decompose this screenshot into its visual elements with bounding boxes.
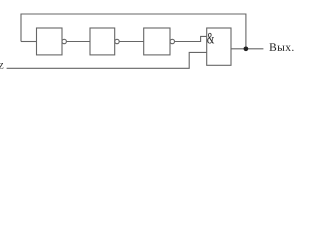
inversion bubble of DD3	[170, 39, 174, 43]
wire feedback top	[21, 14, 246, 49]
wire Z input line	[7, 52, 207, 68]
wire inverter3 to AND upper input	[175, 36, 207, 41]
and-gate U4 box	[207, 28, 231, 65]
inversion bubble of DD2	[115, 39, 119, 43]
inverter DD2 box	[90, 28, 115, 55]
label & of AND gate	[207, 33, 214, 44]
wire inverter1 to inverter2	[66, 41, 90, 43]
junction node dot	[244, 46, 249, 51]
inverter DD3 box	[144, 28, 170, 55]
label Vyh output	[269, 43, 293, 51]
inversion bubble of DD1	[62, 39, 66, 43]
wire input to inverter 1	[21, 41, 37, 43]
wire inverter2 to inverter3	[119, 41, 144, 43]
inverter DD1 box	[37, 28, 63, 55]
wire output	[231, 48, 263, 50]
label Z input	[0, 63, 3, 69]
